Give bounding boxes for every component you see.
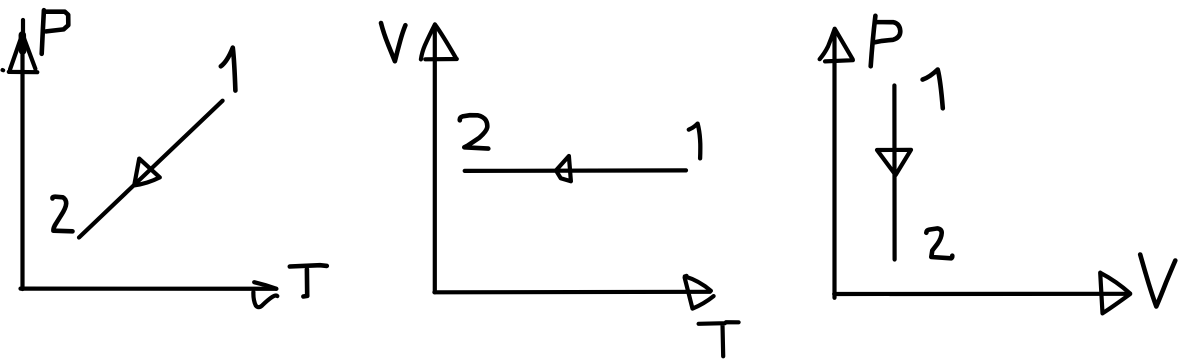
graph 2: T axis label — [699, 322, 739, 356]
graph 3: point label 1 — [923, 70, 943, 109]
graph 1: T horizontal axis line — [21, 287, 277, 291]
graph 2: point label 1 — [689, 124, 701, 159]
graph 1: point label 1 — [221, 48, 236, 91]
graph 1: stray dot left of P axis arrowhead — [1, 68, 6, 72]
graph 3: P vertical axis line — [832, 31, 836, 298]
graph 3: V axis arrowhead — [1100, 273, 1130, 314]
graph 1: P axis label — [42, 10, 69, 54]
graph 3: P axis arrowhead — [820, 29, 853, 62]
graph 1: T axis label — [290, 265, 327, 296]
graph 1: process line from 2 to 1 (diagonal) — [79, 101, 223, 238]
graph 3: process line from 1 to 2 (vertical isochor) — [892, 86, 896, 260]
graph 2: point label 2 — [460, 115, 489, 148]
graph 2: direction arrowhead on process line (pointing left) — [556, 156, 571, 181]
graph 1: point label 2 — [52, 197, 72, 232]
graph 1: direction arrowhead on process line — [134, 159, 160, 186]
graph 3: V horizontal axis line — [834, 292, 1128, 296]
graph 3: P axis label — [871, 16, 901, 67]
graph 1: P axis arrowhead — [9, 34, 38, 72]
graph 2: T horizontal axis line — [434, 290, 710, 295]
graph 2: T axis arrowhead — [685, 276, 714, 309]
graph 3: V axis label — [1140, 255, 1175, 307]
graph 2: process line from 1 to 2 (horizontal isobar) — [465, 168, 686, 173]
graph 2: V axis label — [381, 23, 405, 61]
graph 1: P vertical axis line — [20, 20, 25, 289]
graph 2: V axis arrowhead — [421, 24, 457, 59]
graph 3: point label 2 — [926, 228, 952, 258]
graph 2: V vertical axis line — [433, 27, 437, 292]
graph 3: direction arrowhead on process line (pointing down) — [877, 150, 911, 175]
graph 1: T axis hand-drawn arrowhead — [253, 282, 277, 307]
